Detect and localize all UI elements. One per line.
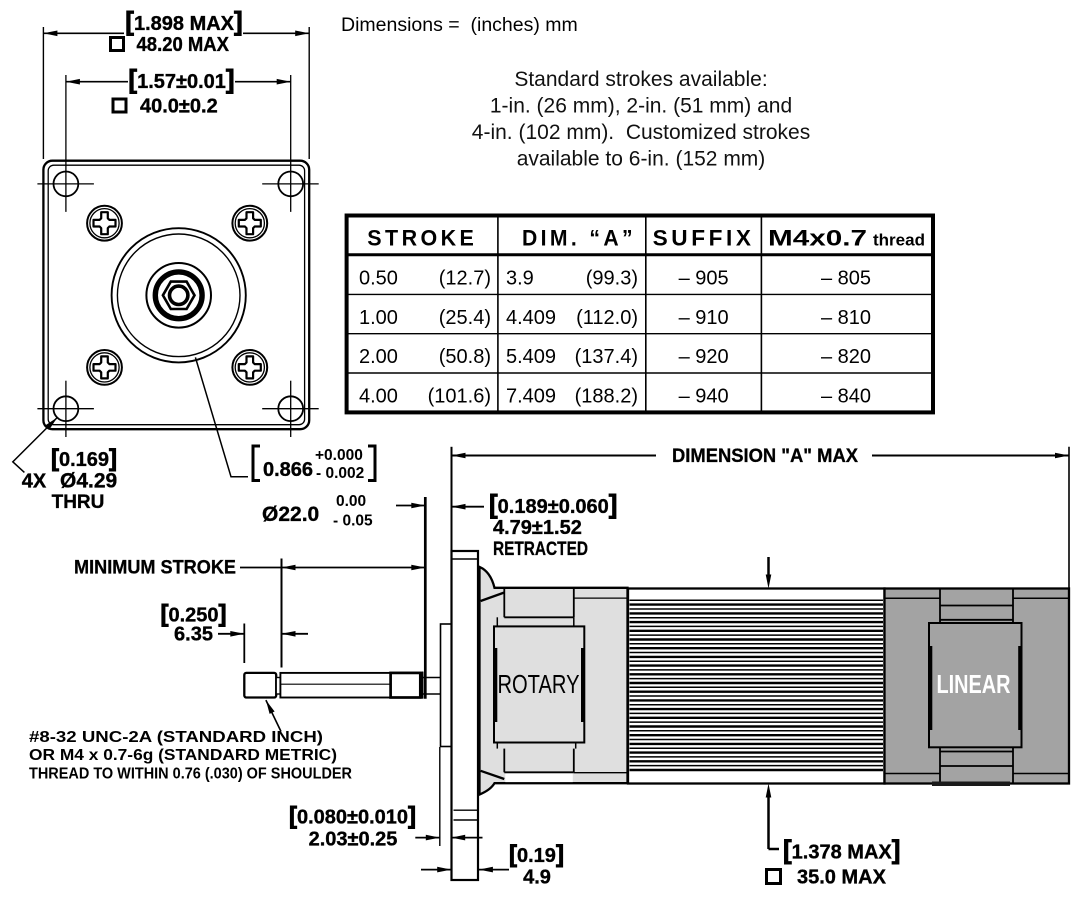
svg-text:- 0.05: - 0.05 xyxy=(333,513,373,530)
svg-text:(137.4): (137.4) xyxy=(575,346,638,368)
svg-text:4.79±1.52: 4.79±1.52 xyxy=(493,517,582,539)
svg-text:OR M4 x 0.7-6g (STANDARD METRI: OR M4 x 0.7-6g (STANDARD METRIC) xyxy=(29,747,337,764)
svg-text:(112.0): (112.0) xyxy=(576,307,638,329)
svg-text:(99.3): (99.3) xyxy=(586,268,638,290)
phillips screw 2 xyxy=(232,206,267,241)
svg-text:– 810: – 810 xyxy=(821,307,871,329)
svg-text:[0.169]: [0.169] xyxy=(51,445,117,472)
svg-text:RETRACTED: RETRACTED xyxy=(493,539,588,560)
lead-screw end block xyxy=(244,673,276,698)
front view flange inner outline xyxy=(48,165,304,425)
svg-text:SUFFIX: SUFFIX xyxy=(653,226,755,251)
linear bottom tab xyxy=(940,747,1013,783)
svg-text:0.00: 0.00 xyxy=(336,493,366,510)
0.19 dimension xyxy=(421,869,509,871)
svg-text:40.0±0.2: 40.0±0.2 xyxy=(140,96,218,118)
svg-text:6.35: 6.35 xyxy=(174,624,213,646)
svg-text:2.00: 2.00 xyxy=(359,346,398,368)
svg-text:2.03±0.25: 2.03±0.25 xyxy=(309,829,398,851)
svg-text:(101.6): (101.6) xyxy=(428,385,491,407)
svg-text:[0.080±0.010]: [0.080±0.010] xyxy=(289,803,416,830)
lead-screw nub xyxy=(276,678,280,695)
dimension A extension lines xyxy=(452,447,1070,589)
svg-text:4.9: 4.9 xyxy=(523,867,551,889)
svg-text:– 840: – 840 xyxy=(821,385,871,407)
svg-text:Ø22.0: Ø22.0 xyxy=(262,503,319,526)
svg-text:4-in. (102 mm). Customized st: 4-in. (102 mm). Customized strokes xyxy=(472,121,810,144)
dimension 1.57 dimension line and arrows xyxy=(66,81,291,83)
svg-text:– 820: – 820 xyxy=(821,346,871,368)
svg-text:[0.19]: [0.19] xyxy=(509,841,564,868)
svg-text:0.50: 0.50 xyxy=(359,268,398,290)
svg-text:5.409: 5.409 xyxy=(506,346,556,368)
shaft hub rings xyxy=(146,263,211,328)
svg-text:#8-32 UNC-2A (STANDARD INCH): #8-32 UNC-2A (STANDARD INCH) xyxy=(29,729,323,746)
svg-text:LINEAR: LINEAR xyxy=(937,669,1011,699)
svg-text:Standard strokes available:: Standard strokes available: xyxy=(514,68,767,91)
rotary end-cap band lines xyxy=(574,598,628,773)
svg-text:THRU: THRU xyxy=(52,492,105,513)
rear mounting plate xyxy=(441,624,452,747)
svg-text:4.00: 4.00 xyxy=(359,385,398,407)
svg-text:0.866: 0.866 xyxy=(263,459,313,481)
shaft center hole xyxy=(170,286,188,304)
svg-text:– 940: – 940 xyxy=(679,385,729,407)
svg-text:- 0.002: - 0.002 xyxy=(316,465,364,482)
svg-text:(12.7): (12.7) xyxy=(439,268,491,290)
square symbol for 48.20 xyxy=(111,38,124,51)
svg-text:7.409: 7.409 xyxy=(506,385,556,407)
1.378 dimension pointer lines xyxy=(769,557,780,849)
bell taper and rotary body silhouette xyxy=(480,567,628,795)
ribbed center housing xyxy=(628,589,885,784)
stroke table grid xyxy=(347,216,933,413)
thread note leader xyxy=(266,700,281,731)
svg-text:THREAD TO WITHIN 0.76 (.030) O: THREAD TO WITHIN 0.76 (.030) OF SHOULDER xyxy=(29,766,352,783)
svg-text:– 920: – 920 xyxy=(679,346,729,368)
threaded block near flange xyxy=(391,673,421,698)
svg-text:M4x0.7: M4x0.7 xyxy=(768,226,867,251)
linear top tab xyxy=(940,589,1013,624)
leader from hub to 0.866 dim xyxy=(195,357,248,476)
square symbol for 35.0 xyxy=(767,870,781,884)
svg-text:1.00: 1.00 xyxy=(359,307,398,329)
svg-text:– 905: – 905 xyxy=(679,268,729,290)
dimension 1.898 MAX dimension line and arrows xyxy=(43,32,309,34)
Ø22.0 dimension xyxy=(396,505,425,507)
rotary neck verticals xyxy=(497,617,575,748)
rotary tab horizontal lines xyxy=(504,617,574,772)
svg-text:(25.4): (25.4) xyxy=(439,307,491,329)
front view flange outer outline xyxy=(43,161,309,430)
svg-text:35.0 MAX: 35.0 MAX xyxy=(797,867,887,889)
shaft narrow section into flange xyxy=(421,678,452,695)
leader from corner hole to 4X dim xyxy=(13,417,58,472)
rotary label block xyxy=(494,626,584,742)
svg-text:(188.2): (188.2) xyxy=(575,385,638,407)
phillips screw 4 xyxy=(232,350,267,385)
svg-text:STROKE: STROKE xyxy=(367,226,477,251)
retracted dimension arrow xyxy=(452,506,485,508)
collar lines xyxy=(422,672,424,699)
rib fins xyxy=(630,600,884,770)
svg-text:1-in. (26 mm), 2-in. (51 mm) a: 1-in. (26 mm), 2-in. (51 mm) and xyxy=(490,95,792,118)
phillips screw 1 xyxy=(87,206,122,241)
white notch below bottom tab xyxy=(505,773,573,782)
main flange plate xyxy=(452,551,479,880)
bottom-right mounting hole xyxy=(262,381,319,437)
svg-text:DIMENSION "A" MAX: DIMENSION "A" MAX xyxy=(672,446,858,467)
square symbol for 40.0 xyxy=(113,99,126,112)
svg-text:3.9: 3.9 xyxy=(506,268,534,290)
svg-text:thread: thread xyxy=(873,232,925,250)
shaft hex nut xyxy=(163,282,195,309)
svg-text:Dimensions = (inches) mm: Dimensions = (inches) mm xyxy=(341,14,578,36)
svg-text:(50.8): (50.8) xyxy=(439,346,491,368)
svg-text:– 805: – 805 xyxy=(821,268,871,290)
bottom-left mounting hole xyxy=(37,381,94,437)
svg-text:48.20 MAX: 48.20 MAX xyxy=(137,34,230,56)
linear label block xyxy=(929,623,1022,747)
bell cone edges xyxy=(481,593,505,780)
top-left mounting hole xyxy=(37,75,94,212)
phillips screw 3 xyxy=(87,350,122,385)
svg-text:+0.000: +0.000 xyxy=(315,447,363,464)
svg-text:available to 6-in. (152 mm): available to 6-in. (152 mm) xyxy=(517,148,766,171)
dimension 1.898 MAX extension lines xyxy=(43,27,309,159)
top-right mounting hole xyxy=(262,75,319,212)
svg-text:4X: 4X xyxy=(22,471,47,493)
rotary tab verticals xyxy=(504,589,574,772)
svg-text:DIM. “A”: DIM. “A” xyxy=(522,226,636,251)
svg-text:ROTARY: ROTARY xyxy=(498,669,580,699)
svg-text:MINIMUM STROKE: MINIMUM STROKE xyxy=(74,558,236,579)
svg-text:– 910: – 910 xyxy=(679,307,729,329)
svg-text:4.409: 4.409 xyxy=(506,307,556,329)
linear motor body xyxy=(885,589,1070,784)
dimension text [0.866 +0.000 -0.002] xyxy=(253,446,375,481)
svg-text:Ø4.29: Ø4.29 xyxy=(60,470,117,493)
lead-screw shaft xyxy=(280,673,422,698)
central pilot boss circles xyxy=(112,228,246,362)
dimension A line and arrows xyxy=(452,455,1070,457)
